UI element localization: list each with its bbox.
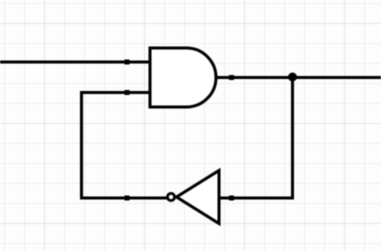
junction node xyxy=(288,73,297,82)
AND gate U1 xyxy=(150,48,216,107)
inverter U2 triangle xyxy=(177,171,220,224)
terminal gate input A xyxy=(125,60,130,65)
wire output xyxy=(216,76,381,79)
terminal inverter input xyxy=(229,196,234,201)
wire input A xyxy=(0,61,151,64)
wire feedback: left vertical and input B xyxy=(82,93,169,199)
inverter U2 bubble xyxy=(167,193,174,200)
terminal inverter output xyxy=(125,196,130,201)
terminal gate output xyxy=(229,75,234,80)
wire feedback: right vertical to inverter input xyxy=(219,78,293,199)
terminal gate input B xyxy=(125,90,130,95)
